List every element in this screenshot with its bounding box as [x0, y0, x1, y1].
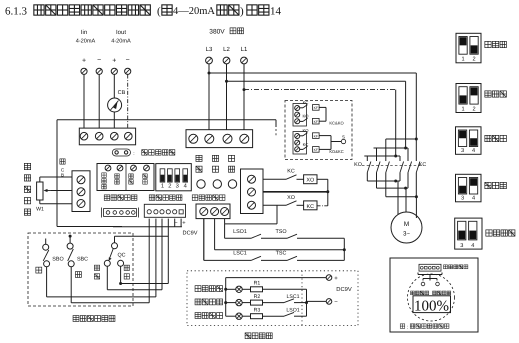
wire KC coil dash-dot: [317, 205, 328, 207]
pot range: [117, 165, 123, 171]
legend DIP reverse-action 反作用: [456, 84, 481, 113]
svg-text:): ): [240, 6, 244, 18]
svg-text:3: 3: [461, 148, 464, 154]
svg-text:1: 1: [461, 57, 464, 63]
wire to terminal S: [331, 141, 341, 143]
svg-text:3: 3: [176, 182, 179, 189]
lamp HL3: [236, 313, 242, 319]
DIP switch block: [156, 164, 192, 191]
panel DIP strip: [419, 264, 441, 271]
svg-text:SBC: SBC: [77, 257, 88, 263]
aux relay box lower2: [313, 147, 320, 153]
pot span: [144, 165, 150, 171]
wire motor bus 2: [377, 187, 409, 189]
svg-text:6.1.3: 6.1.3: [5, 6, 28, 18]
svg-text:SBO: SBO: [52, 257, 63, 263]
wire SBO bottom: [46, 267, 48, 297]
relay module dashed box: [285, 101, 352, 160]
relay coil KC: [304, 201, 317, 210]
svg-text:KO&KC: KO&KC: [329, 149, 343, 154]
wire crossbar 2: [374, 147, 406, 149]
label 显示接线座: [104, 195, 110, 201]
svg-text:4: 4: [472, 148, 475, 154]
ammeter CB: [108, 98, 122, 112]
svg-text:L1: L1: [241, 46, 248, 53]
svg-text:W1: W1: [36, 207, 44, 213]
svg-text:QC: QC: [117, 253, 125, 259]
wire L1 rail: [243, 88, 246, 91]
terminal L2: [223, 57, 230, 64]
terminal strip input: [79, 128, 135, 145]
svg-text:4: 4: [471, 243, 474, 249]
svg-text:+: +: [112, 58, 116, 65]
svg-text:−: −: [334, 300, 338, 306]
svg-text:TSO: TSO: [275, 229, 286, 235]
svg-text:KC: KC: [303, 142, 309, 147]
wire bundle t1: [148, 219, 150, 303]
svg-text:KC: KC: [287, 169, 295, 175]
svg-text:KF: KF: [314, 120, 318, 124]
terminal Iout-: [125, 68, 131, 74]
indicator row close 关向指示: [195, 299, 201, 305]
contactor KC pole 3: [415, 139, 417, 161]
aux relay box upper2: [313, 118, 320, 124]
contactor KO pole 1: [366, 156, 368, 161]
label 接CB (vertical): [60, 159, 65, 164]
wire Iout+ to ammeter: [113, 75, 115, 99]
label 现场指示: [245, 333, 251, 339]
dial circle dashed: [408, 274, 455, 321]
svg-text:KF: KF: [314, 134, 318, 138]
aux relay box lower1: [313, 133, 320, 139]
svg-text:LSO1: LSO1: [233, 229, 247, 235]
LED power: [197, 180, 205, 188]
wire QC top: [114, 236, 116, 243]
svg-text:DC9V: DC9V: [183, 231, 198, 237]
wire bundle t2: [155, 219, 157, 297]
svg-text:−: −: [126, 57, 130, 64]
terminal strip position: [196, 204, 230, 219]
pot zero: [131, 165, 137, 171]
wire QC right down: [120, 266, 122, 283]
svg-text:1: 1: [461, 106, 464, 112]
wire Iin+ down: [83, 75, 85, 129]
svg-text:L2: L2: [223, 46, 230, 53]
svg-text:R3: R3: [254, 307, 261, 313]
legend DIP signal-loss-hold 丢信保持: [455, 218, 482, 249]
LED labels 电缺丢 / 源相信: [196, 155, 202, 161]
terminal Iin-: [96, 68, 102, 74]
wire supply rail top: [226, 277, 326, 279]
svg-text:XO: XO: [287, 195, 295, 201]
panel bracket: [417, 273, 419, 275]
node supply junction: [326, 190, 329, 193]
wire motor bus 1: [367, 180, 400, 182]
LED phase-loss: [213, 180, 221, 188]
svg-text:4-20mA: 4-20mA: [76, 39, 96, 45]
enclosure controller box: [57, 119, 276, 121]
svg-text:4: 4: [472, 196, 475, 202]
wire bundle t3: [161, 219, 163, 290]
local indication dashed box: [187, 271, 358, 326]
svg-text:TSC: TSC: [276, 251, 287, 257]
wire down right: [343, 238, 345, 260]
svg-text:380V: 380V: [209, 29, 225, 36]
svg-text:3: 3: [460, 243, 463, 249]
svg-text:L3: L3: [206, 46, 213, 53]
svg-text::: :: [133, 151, 134, 157]
selector switch QC: [112, 243, 118, 249]
wire crossbar 3: [364, 155, 395, 157]
terminal Iout+: [111, 68, 117, 74]
wire feed phase B: [405, 81, 407, 148]
relay coil XO: [304, 175, 317, 184]
terminal L1: [241, 57, 248, 64]
svg-text:DC9V: DC9V: [336, 286, 352, 293]
terminal block output: [241, 169, 264, 214]
contactor KC pole 1: [396, 155, 400, 157]
local control dashed box: [28, 233, 133, 306]
panel LED right: [436, 282, 440, 286]
terminal block feedback: [72, 171, 90, 212]
svg-text::: :: [407, 325, 408, 331]
terminal strip display: [104, 209, 137, 217]
wire SBO top: [45, 239, 47, 245]
adjustment panel box: [97, 164, 154, 191]
svg-text:Iin: Iin: [81, 29, 87, 36]
push button SBO: [43, 244, 49, 250]
wire feed phase A: [415, 73, 417, 139]
terminal DC +: [326, 275, 332, 281]
lamp HL1: [236, 286, 242, 292]
wire bundle t4: [167, 219, 169, 284]
wire LSO1 row: [224, 224, 226, 238]
wire Iin- down: [98, 75, 100, 129]
svg-text:4—20mA: 4—20mA: [173, 6, 215, 17]
svg-text:S: S: [342, 135, 345, 140]
terminal strip control: [144, 204, 185, 217]
motor M: [391, 212, 422, 243]
label 现场控制按钮: [73, 316, 79, 322]
svg-text:KC&KO: KC&KO: [329, 121, 343, 126]
wire position t3 up-branch: [224, 219, 226, 224]
wire common (thick): [263, 191, 328, 193]
svg-text:1: 1: [161, 183, 164, 189]
wire LSC1 row: [203, 219, 205, 261]
interlock dashed link: [362, 164, 424, 166]
svg-text:Iout: Iout: [116, 29, 126, 36]
label 现位接线座: [192, 195, 198, 201]
wire W1 top: [39, 177, 41, 182]
svg-text:3: 3: [461, 196, 464, 202]
terminal block aux lower: [293, 132, 307, 155]
svg-text:KC: KC: [303, 100, 309, 105]
svg-text:KO: KO: [302, 128, 309, 133]
svg-text:14: 14: [270, 6, 282, 18]
panel small labels: [411, 291, 415, 295]
label 指示器面板: [444, 265, 448, 269]
svg-text:LSC1: LSC1: [233, 251, 247, 257]
wire QC left down: [106, 266, 108, 289]
wire minus terminal: [174, 219, 176, 227]
wire motor bus 3: [386, 196, 417, 198]
label 阀位电位器 (vertical): [24, 163, 30, 169]
svg-text:+: +: [82, 58, 86, 65]
svg-text:+: +: [334, 276, 338, 282]
wire Iout- down (dash-dot): [127, 75, 129, 129]
test point 调零测试点: [112, 149, 130, 156]
terminal block aux upper: [293, 104, 307, 127]
terminal L3: [206, 57, 213, 64]
svg-text:CB: CB: [118, 90, 126, 96]
wire lamp return vertical: [306, 289, 308, 316]
display panel box: [390, 258, 478, 332]
svg-text:(: (: [157, 6, 161, 18]
potentiometer W1: [37, 182, 43, 200]
wire SBC bottom: [70, 267, 72, 303]
dashed divider: [301, 271, 303, 326]
indicator row open 开向指示: [195, 313, 201, 319]
push button SBC: [67, 243, 73, 249]
svg-text:KO: KO: [302, 114, 309, 119]
svg-text:M: M: [404, 221, 410, 228]
terminal DC -: [307, 300, 327, 302]
svg-text:100%: 100%: [414, 299, 449, 315]
wire ammeter down: [113, 112, 115, 129]
pot labels: [102, 173, 107, 178]
wire L1 down: [243, 64, 245, 130]
wire plus terminal: [180, 219, 182, 227]
svg-text:R2: R2: [254, 294, 261, 300]
percent display: [413, 296, 451, 313]
svg-text:4-20mA: 4-20mA: [111, 39, 131, 45]
svg-text:B: B: [61, 173, 64, 178]
wire lamp feed vertical: [225, 278, 227, 317]
wire W1 wiper: [51, 190, 72, 192]
terminal strip power: [186, 130, 253, 148]
svg-text:3~: 3~: [403, 231, 410, 238]
svg-text:KC: KC: [307, 204, 315, 210]
pot sensitivity: [105, 165, 111, 171]
wire L2 rail: [225, 80, 228, 83]
wire cross row A: [214, 219, 216, 250]
svg-text:R1: R1: [254, 281, 261, 287]
wire L3 rail: [208, 72, 211, 75]
wire SBC top: [69, 235, 72, 238]
aux relay box upper1: [313, 105, 320, 111]
panel LED left: [421, 282, 425, 286]
legend DIP signal-loss-close 丢信关: [456, 127, 482, 155]
svg-text:2: 2: [472, 57, 475, 63]
wire dc link: [113, 226, 182, 228]
wire L3 down: [208, 64, 210, 130]
wire feed phase C: [395, 90, 397, 156]
wire crossbar 1: [386, 138, 417, 140]
contactor KO pole 3: [385, 139, 387, 161]
legend DIP signal-loss-open 丢信开: [456, 174, 482, 202]
indicator row power 电源指示: [195, 286, 201, 292]
label 控制接线座: [149, 195, 155, 201]
contactor KC pole 2: [406, 147, 408, 149]
legend DIP direct-action 正作用: [456, 33, 481, 63]
wire W1 bottom: [39, 200, 41, 204]
wire XO to node: [317, 178, 328, 180]
contactor KO pole 2: [376, 148, 378, 161]
lamp HL2: [236, 299, 242, 305]
svg-text:KF: KF: [314, 148, 318, 152]
svg-text:KF: KF: [314, 106, 318, 110]
svg-text:2: 2: [472, 106, 475, 112]
LED signal-loss: [228, 180, 236, 188]
wire L2 down: [226, 64, 228, 130]
panel note text: [400, 324, 405, 329]
svg-text:2: 2: [168, 182, 171, 189]
svg-text:KO: KO: [354, 162, 362, 168]
terminal Iin+: [81, 68, 87, 74]
svg-text:−: −: [97, 57, 101, 64]
svg-text:XO: XO: [306, 178, 314, 184]
